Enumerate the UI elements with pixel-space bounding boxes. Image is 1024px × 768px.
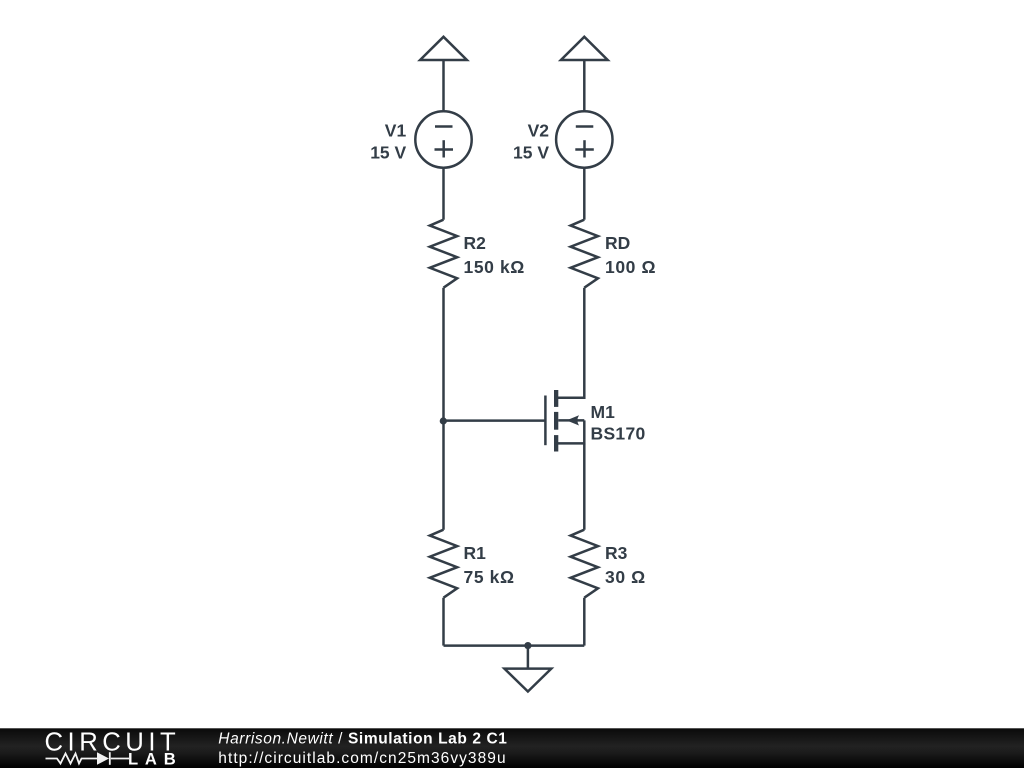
resistor R2 (430, 220, 457, 288)
svg-text:R1: R1 (464, 543, 487, 563)
svg-text:V1: V1 (385, 121, 407, 141)
transistor M1 (545, 390, 584, 452)
label M1 value BS170 (591, 402, 646, 444)
svg-text:Harrison.Newitt / Simulation L: Harrison.Newitt / Simulation Lab 2 C1 (218, 731, 507, 748)
label RD value 100 Ω (605, 233, 656, 277)
label V1 value 15 V (370, 121, 406, 163)
svg-text:http://circuitlab.com/cn25m36v: http://circuitlab.com/cn25m36vy389u (218, 750, 506, 767)
power V+ arrow above V1 (420, 37, 467, 112)
voltage source V2 (556, 111, 612, 167)
svg-text:M1: M1 (591, 402, 616, 422)
svg-text:75 kΩ: 75 kΩ (464, 567, 515, 587)
wire node A to R1 (442, 421, 445, 530)
svg-text:RD: RD (605, 233, 630, 253)
svg-text:R3: R3 (605, 543, 628, 563)
resistor R3 (571, 530, 598, 598)
svg-text:BS170: BS170 (591, 424, 646, 444)
label R3 value 30 Ω (605, 543, 646, 587)
ground (504, 646, 551, 692)
wire R3 to ground rail (583, 598, 586, 646)
svg-text:LAB: LAB (128, 749, 183, 768)
svg-text:100 Ω: 100 Ω (605, 257, 656, 277)
wire RD to M1 drain (556, 288, 584, 398)
svg-text:15 V: 15 V (513, 143, 549, 163)
label R2 value 150 kΩ (464, 233, 525, 277)
node A junction dot (440, 417, 447, 424)
footer logo resistor-diode glyph (46, 752, 130, 765)
wire M1 source to R3 (583, 443, 586, 529)
power V+ arrow above V2 (561, 37, 608, 112)
ground rail wire (444, 644, 585, 647)
wire V2 to RD (583, 168, 586, 220)
ground junction dot (524, 642, 531, 649)
svg-text:30 Ω: 30 Ω (605, 567, 646, 587)
svg-text:V2: V2 (528, 121, 550, 141)
label R1 value 75 kΩ (464, 543, 515, 587)
label V2 value 15 V (513, 121, 549, 163)
voltage source V1 (415, 111, 471, 167)
resistor R1 (430, 530, 457, 598)
wire R2 to node A (442, 288, 445, 421)
resistor RD (571, 220, 598, 288)
svg-text:15 V: 15 V (370, 143, 406, 163)
wire R1 to ground rail (442, 598, 445, 646)
svg-text:150 kΩ: 150 kΩ (464, 257, 525, 277)
wire node A to M1 gate (444, 419, 546, 422)
footer bar (0, 728, 1024, 768)
wire V1 to R2 (442, 168, 445, 220)
svg-text:R2: R2 (464, 233, 487, 253)
